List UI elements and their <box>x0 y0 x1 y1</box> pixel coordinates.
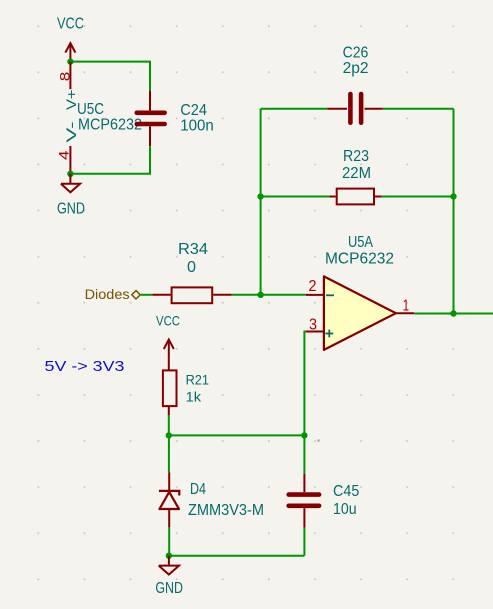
svg-text:4: 4 <box>56 150 72 160</box>
junction GND row <box>166 553 172 559</box>
junction R23 right <box>450 193 456 199</box>
svg-text:D4: D4 <box>190 481 206 498</box>
op-amp U5C power unit pin 4 V- <box>56 121 80 174</box>
svg-text:R34: R34 <box>178 241 208 258</box>
svg-text:3: 3 <box>309 317 317 334</box>
resistor R21 <box>163 358 177 415</box>
svg-text:0: 0 <box>187 259 196 276</box>
svg-text:VCC: VCC <box>156 313 180 329</box>
capacitor C24 <box>137 91 165 146</box>
plus sign <box>325 333 333 335</box>
wire left vertical rail <box>260 109 262 295</box>
wire op-amp pin 3 down <box>304 332 305 436</box>
wire D4 bottom to GND row <box>168 527 170 555</box>
wire GND row horizontal <box>169 555 305 557</box>
svg-text:VCC: VCC <box>57 16 84 33</box>
capacitor C45 <box>289 474 319 528</box>
svg-text:5V -> 3V3: 5V -> 3V3 <box>45 358 125 375</box>
power flag VCC top <box>65 43 75 62</box>
op-amp U5C power unit pin 8 V+ <box>57 62 80 110</box>
svg-text:8: 8 <box>57 72 73 82</box>
svg-text:GND: GND <box>57 201 85 218</box>
svg-text:R21: R21 <box>186 371 210 387</box>
svg-text:2p2: 2p2 <box>343 60 369 77</box>
wire R21 to junction row <box>168 415 170 435</box>
wire to D4 top <box>168 435 170 472</box>
svg-text:MCP6232: MCP6232 <box>325 251 394 268</box>
svg-text:100n: 100n <box>180 117 214 134</box>
capacitor C26 <box>327 94 383 123</box>
junction R23 left <box>257 193 263 199</box>
wire top rail right (C26 to right rail) <box>383 108 454 110</box>
svg-text:U5A: U5A <box>348 234 374 251</box>
junction row left <box>166 432 172 438</box>
wire VCC junction to C24 top <box>70 62 150 91</box>
wire top rail left (to C26) <box>261 108 328 110</box>
hierarchical label Diodes <box>85 287 141 302</box>
minus sign <box>326 294 334 296</box>
resistor R23 <box>330 189 382 205</box>
wire right vertical rail <box>453 109 455 314</box>
wire R34 to op-amp pin 2 <box>232 294 306 296</box>
wire junction row horizontal <box>169 434 305 436</box>
junction output / right rail <box>450 310 456 316</box>
junction R34 wire / left rail <box>257 292 263 298</box>
pin 2 <box>306 294 324 296</box>
wire R23 row left <box>261 196 330 198</box>
svg-text:10u: 10u <box>333 501 357 518</box>
wire C45 bottom <box>303 528 305 556</box>
ground GND bottom <box>159 556 179 575</box>
svg-text:GND: GND <box>155 580 183 597</box>
junction at VCC / U5C pin 8 <box>67 58 73 64</box>
junction at U5C pin 4 / GND <box>67 171 73 177</box>
wire R23 row right <box>382 196 454 198</box>
svg-text:1k: 1k <box>186 389 202 405</box>
svg-text:2: 2 <box>309 278 317 295</box>
zener diode D4 <box>159 472 179 527</box>
wire C24 bottom to U5C pin 4 <box>70 146 150 174</box>
op-amp U5A <box>306 276 415 350</box>
svg-text:R23: R23 <box>343 148 369 165</box>
svg-text:ZMM3V3-M: ZMM3V3-M <box>188 502 264 519</box>
svg-text:Diodes: Diodes <box>85 287 130 302</box>
junction row right <box>301 432 307 438</box>
svg-text:22M: 22M <box>342 165 371 182</box>
svg-text:U5C: U5C <box>77 101 104 118</box>
wire Diodes to R34 <box>141 294 153 296</box>
wire C45 top <box>303 435 305 473</box>
svg-text:C24: C24 <box>180 102 207 119</box>
svg-text:MCP6232: MCP6232 <box>78 117 142 134</box>
pin 1 <box>396 312 414 314</box>
power flag VCC mid <box>164 340 174 359</box>
ground GND top <box>61 174 80 193</box>
svg-text:C45: C45 <box>333 483 359 500</box>
svg-text:V-: V- <box>63 121 79 143</box>
wire op-amp output <box>414 313 493 315</box>
svg-text:1: 1 <box>403 298 409 315</box>
resistor R34 <box>152 287 232 303</box>
pin 3 <box>306 331 324 333</box>
